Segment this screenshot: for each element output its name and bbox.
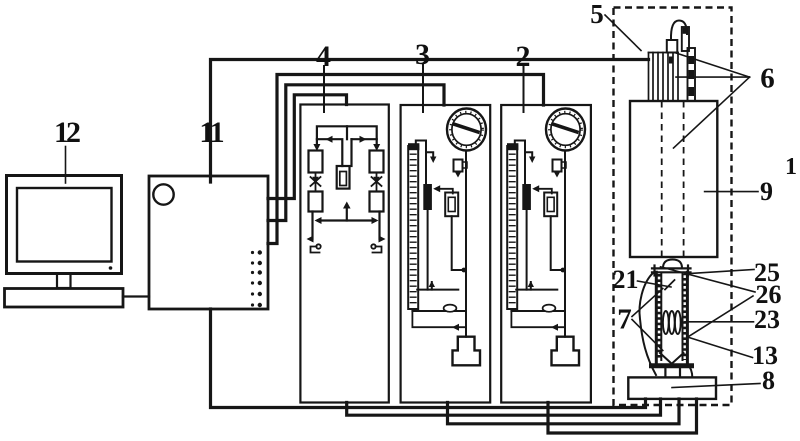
svg-text:2: 2 [516, 40, 531, 73]
svg-text:5: 5 [590, 0, 604, 29]
svg-text:7: 7 [617, 304, 632, 336]
svg-text:9: 9 [760, 177, 773, 206]
svg-text:11: 11 [199, 116, 223, 149]
svg-text:6: 6 [760, 63, 775, 95]
svg-text:23: 23 [754, 305, 780, 334]
svg-text:21: 21 [613, 265, 639, 294]
svg-text:8: 8 [762, 366, 775, 395]
svg-text:12: 12 [54, 116, 80, 149]
svg-text:1: 1 [785, 154, 797, 180]
svg-text:3: 3 [415, 38, 430, 71]
svg-text:4: 4 [316, 40, 331, 73]
